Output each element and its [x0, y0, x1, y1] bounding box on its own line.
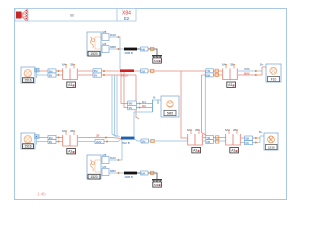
svg-text:MA8: MA8 [110, 33, 116, 37]
svg-text:9N: 9N [49, 140, 52, 144]
svg-text:MB6: MB6 [110, 169, 116, 173]
svg-text:2M2 B: 2M2 B [122, 141, 130, 145]
svg-text:2M2: 2M2 [96, 140, 102, 144]
svg-text:MB8: MB8 [110, 45, 116, 49]
svg-text:2B: 2B [96, 134, 100, 138]
svg-text:MA6: MA6 [110, 156, 116, 160]
svg-text:M2: M2 [142, 104, 146, 108]
svg-text:9N: 9N [245, 141, 248, 145]
svg-text:2MB B: 2MB B [125, 175, 134, 179]
svg-text:9N: 9N [129, 106, 133, 110]
svg-text:2MB B: 2MB B [125, 51, 134, 55]
svg-text:9M: 9M [129, 102, 134, 106]
svg-text:M: M [153, 96, 156, 100]
svg-text:9N: 9N [49, 73, 52, 77]
svg-text:86: 86 [70, 14, 74, 18]
svg-text:M4: M4 [141, 171, 145, 175]
svg-text:8M0: 8M0 [244, 71, 250, 75]
svg-text:9N: 9N [94, 73, 97, 77]
svg-text:E2: E2 [124, 16, 130, 21]
svg-text:J-4b: J-4b [37, 192, 46, 197]
svg-text:B+: B+ [259, 130, 263, 134]
svg-text:1530: 1530 [268, 146, 275, 150]
svg-text:5M5: 5M5 [167, 112, 173, 116]
svg-text:B+: B+ [260, 63, 264, 67]
svg-text:M6: M6 [141, 47, 145, 51]
svg-text:F10: F10 [271, 78, 277, 82]
